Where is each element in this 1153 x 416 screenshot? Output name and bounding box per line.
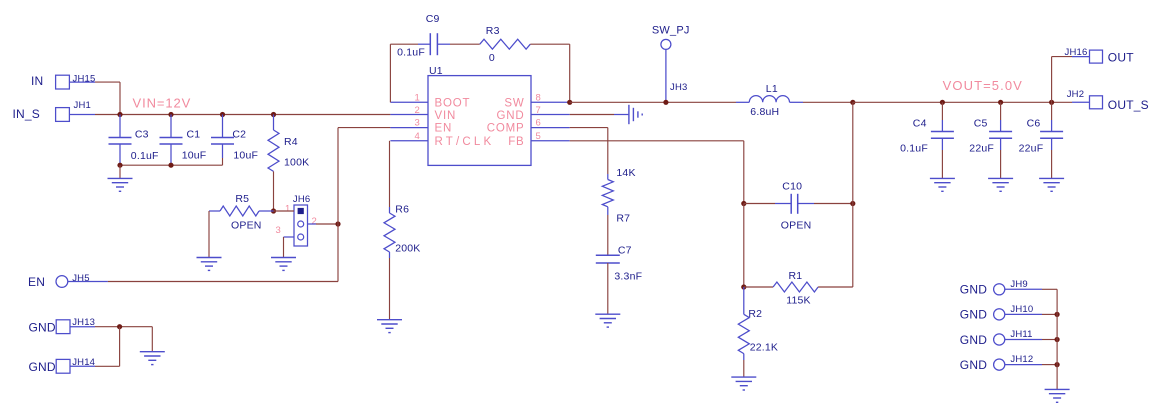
U1 pin 2 VIN stub	[390, 114, 428, 116]
junction R4 bottom	[271, 208, 276, 213]
wire C9 to R3	[450, 43, 480, 45]
capacitor C5	[1000, 102, 1002, 120]
wire EN to U1 pin3	[338, 127, 390, 129]
wire JH6 pin3 to ground	[284, 236, 295, 238]
svg-text:RT/CLK: RT/CLK	[435, 136, 495, 148]
svg-text:22uF: 22uF	[1019, 143, 1044, 155]
wire JH12	[1005, 364, 1042, 366]
wire FB node down	[743, 204, 745, 288]
junction C5	[998, 100, 1003, 105]
wire to input ground	[119, 165, 121, 178]
ground R6	[377, 319, 402, 321]
junction at C3 top	[117, 112, 122, 117]
wire JH15 to VIN corner	[69, 81, 95, 83]
wire JH5 to EN net	[68, 281, 108, 283]
op-amp U1 body	[428, 76, 531, 166]
svg-text:OPEN: OPEN	[781, 220, 812, 232]
svg-text:100K: 100K	[284, 157, 309, 169]
svg-text:SW: SW	[504, 97, 524, 109]
U1 pin 3 EN stub	[390, 127, 428, 129]
svg-text:JH3: JH3	[670, 82, 688, 93]
svg-text:3: 3	[415, 118, 420, 129]
svg-text:GND: GND	[960, 283, 987, 297]
capacitor C2	[222, 115, 224, 138]
svg-text:EN: EN	[435, 123, 453, 135]
svg-text:VOUT=5.0V: VOUT=5.0V	[943, 78, 1023, 93]
JH6 pin3 pad	[298, 234, 304, 240]
junction R1/R2 node	[741, 284, 746, 289]
wire VIN rail	[120, 114, 390, 116]
junction at R4 top	[271, 112, 276, 117]
wire R5 left to ground	[208, 211, 210, 258]
svg-text:JH6: JH6	[293, 194, 311, 205]
junction SW_PJ	[663, 100, 668, 105]
svg-text:10uF: 10uF	[233, 149, 258, 161]
wire to JH16	[1051, 57, 1053, 103]
svg-text:OUT: OUT	[1108, 51, 1134, 65]
junction JH10	[1055, 312, 1060, 317]
svg-text:0.1uF: 0.1uF	[131, 150, 159, 162]
junction C4	[940, 100, 945, 105]
svg-text:R7: R7	[616, 213, 630, 225]
connector JH9	[994, 284, 1005, 295]
capacitor C9	[418, 43, 430, 45]
junction JH12	[1055, 362, 1060, 367]
wire JH11	[1005, 339, 1042, 341]
svg-text:C2: C2	[232, 128, 246, 140]
wire C7 to ground	[607, 263, 609, 314]
connector JH15	[56, 75, 70, 89]
svg-text:C1: C1	[187, 128, 201, 140]
U1 pin 5 FB stub	[531, 140, 570, 142]
svg-text:VIN=12V: VIN=12V	[133, 96, 192, 111]
svg-text:4: 4	[415, 131, 420, 142]
svg-text:JH1: JH1	[74, 100, 92, 111]
capacitor C6	[1051, 102, 1053, 120]
svg-text:0.1uF: 0.1uF	[397, 47, 425, 59]
wire BOOT up	[389, 44, 391, 102]
svg-text:JH10: JH10	[1010, 304, 1033, 315]
wire VOUT rail	[853, 101, 1072, 103]
ground R5	[197, 257, 222, 259]
wire GND column vertical	[1056, 289, 1058, 364]
connector JH2	[1072, 101, 1090, 103]
wire JH1 to rail	[69, 114, 95, 116]
svg-text:6.8uH: 6.8uH	[750, 106, 779, 118]
ground R2	[731, 376, 756, 378]
wire JH9	[1005, 288, 1042, 290]
svg-text:2: 2	[312, 216, 317, 227]
connector JH13	[56, 320, 70, 334]
svg-text:JH5: JH5	[72, 273, 90, 284]
wire cap bottoms	[222, 158, 224, 165]
svg-text:115K: 115K	[786, 295, 811, 307]
U1 pin 4 RT/CLK stub	[390, 140, 428, 142]
junction C3 bottom	[117, 163, 122, 168]
connector JH5	[56, 276, 68, 288]
junction feedback tap	[850, 100, 855, 105]
ground GND header	[1045, 388, 1070, 390]
svg-text:5: 5	[536, 131, 541, 142]
header JH6 body	[294, 205, 308, 246]
rotated ground U1 GND	[628, 105, 630, 124]
svg-text:BOOT: BOOT	[435, 97, 471, 109]
junction C1 bottom	[168, 163, 173, 168]
resistor R2	[743, 287, 745, 309]
junction at C1 top	[168, 112, 173, 117]
wire RT/CLK down	[389, 141, 391, 207]
wire L1 to VOUT	[803, 101, 853, 103]
svg-text:JH2: JH2	[1067, 89, 1085, 100]
resistor R6	[389, 207, 391, 213]
junction JH13/JH14	[117, 324, 122, 329]
svg-text:JH16: JH16	[1065, 47, 1088, 58]
wire SW rail	[570, 101, 736, 103]
svg-text:R6: R6	[395, 204, 409, 216]
svg-text:2: 2	[415, 105, 420, 116]
capacitor C1	[170, 115, 172, 138]
wire R4 node to JH6 pin1	[274, 210, 295, 212]
wire COMP	[570, 127, 608, 129]
svg-text:14K: 14K	[616, 167, 635, 179]
svg-text:R3: R3	[486, 25, 500, 37]
wire R6 to ground	[389, 258, 391, 320]
junction at C2 top	[220, 112, 225, 117]
svg-text:200K: 200K	[395, 243, 420, 255]
svg-text:22.1K: 22.1K	[750, 342, 778, 354]
svg-text:3.3nF: 3.3nF	[614, 271, 642, 283]
JH6 pin2 pad	[298, 221, 304, 227]
resistor R3	[480, 39, 531, 49]
resistor R1	[744, 286, 773, 288]
svg-text:L1: L1	[766, 83, 778, 95]
ground JH6	[271, 257, 296, 259]
inductor L1	[736, 101, 749, 103]
junction FB node	[741, 201, 746, 206]
resistor R5	[209, 210, 220, 212]
svg-text:C9: C9	[426, 13, 440, 25]
svg-text:GND: GND	[29, 360, 56, 374]
ground C6	[1039, 177, 1064, 179]
svg-text:C5: C5	[974, 117, 988, 129]
connector JH11	[994, 334, 1005, 345]
U1 pin 7 GND stub	[531, 114, 570, 116]
svg-text:JH9: JH9	[1010, 279, 1028, 290]
svg-text:GND: GND	[960, 308, 987, 322]
svg-text:C4: C4	[913, 117, 927, 129]
svg-text:GND: GND	[960, 333, 987, 347]
svg-text:R1: R1	[789, 270, 803, 282]
junction SW at R3	[567, 100, 572, 105]
svg-text:EN: EN	[28, 275, 45, 289]
svg-text:0: 0	[489, 52, 495, 64]
U1 pin 6 COMP stub	[531, 127, 570, 129]
svg-text:GND: GND	[497, 110, 525, 122]
svg-text:C6: C6	[1027, 117, 1041, 129]
ground JH13/14	[140, 351, 165, 353]
svg-text:10uF: 10uF	[182, 149, 207, 161]
ground input caps	[108, 177, 133, 179]
svg-text:8: 8	[536, 92, 541, 103]
wire JH14	[70, 365, 95, 367]
resistor R7	[607, 174, 609, 180]
connector JH10	[994, 309, 1005, 320]
svg-text:R5: R5	[235, 193, 249, 205]
svg-text:GND: GND	[960, 358, 987, 372]
svg-text:JH12: JH12	[1010, 354, 1033, 365]
connector JH12	[994, 359, 1005, 370]
JH6 pin1 pad	[298, 208, 304, 214]
capacitor C3	[119, 115, 121, 138]
svg-text:0.1uF: 0.1uF	[900, 143, 928, 155]
svg-text:C10: C10	[782, 181, 802, 193]
svg-text:C7: C7	[618, 245, 632, 257]
wire FB	[570, 140, 744, 142]
ground C5	[988, 177, 1013, 179]
U1 pin 8 SW stub	[531, 101, 570, 103]
wire to left ground	[151, 327, 153, 352]
junction JH11	[1055, 337, 1060, 342]
svg-text:OUT_S: OUT_S	[1108, 98, 1149, 112]
junction EN net at JH6	[335, 221, 340, 226]
wire EN vertical	[337, 128, 339, 282]
svg-text:3: 3	[276, 225, 281, 236]
resistor R4	[273, 115, 275, 131]
svg-text:6: 6	[536, 118, 541, 129]
svg-text:GND: GND	[29, 321, 56, 335]
junction C6/JH16	[1049, 100, 1054, 105]
connector JH14	[56, 359, 70, 373]
capacitor C7	[607, 215, 609, 255]
wire JH10	[1005, 313, 1042, 315]
junction C10 right	[850, 201, 855, 206]
svg-text:C3: C3	[135, 128, 149, 140]
svg-text:R4: R4	[284, 136, 298, 148]
svg-text:IN_S: IN_S	[13, 107, 40, 121]
svg-text:COMP: COMP	[487, 123, 525, 135]
svg-text:U1: U1	[429, 65, 443, 77]
svg-text:FB: FB	[508, 136, 524, 148]
ground C4	[930, 177, 955, 179]
svg-text:VIN: VIN	[435, 110, 457, 122]
svg-text:1: 1	[415, 92, 420, 103]
wire feedback vertical	[852, 102, 854, 287]
svg-text:IN: IN	[31, 74, 43, 88]
wire U1 GND pin	[570, 114, 614, 116]
U1 pin 1 BOOT stub	[390, 101, 428, 103]
capacitor C4	[941, 102, 943, 120]
svg-text:JH15: JH15	[73, 74, 96, 85]
wire JH6 pin2 to EN net	[308, 223, 317, 225]
ground C7	[595, 313, 620, 315]
connector JH16	[1090, 50, 1103, 63]
svg-text:R2: R2	[748, 308, 762, 320]
svg-text:OPEN: OPEN	[231, 219, 262, 231]
connector JH1	[56, 108, 70, 122]
svg-text:22uF: 22uF	[969, 143, 994, 155]
wire R3 to SW	[530, 43, 569, 45]
capacitor C10	[744, 203, 775, 205]
wire JH13	[70, 326, 95, 328]
svg-text:7: 7	[536, 105, 541, 116]
svg-text:SW_PJ: SW_PJ	[652, 25, 690, 37]
svg-text:JH11: JH11	[1010, 329, 1032, 340]
svg-text:1: 1	[285, 204, 290, 215]
